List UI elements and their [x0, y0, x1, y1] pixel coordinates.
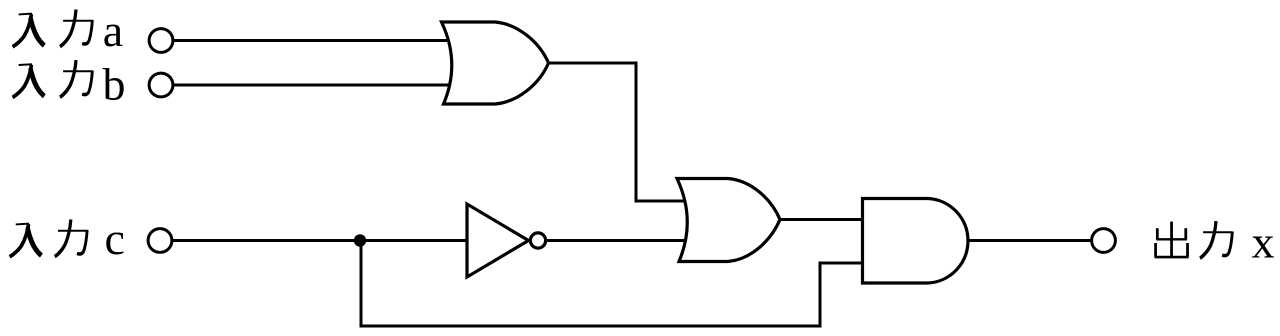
OR gate U1: [442, 22, 549, 104]
wire NOT output to OR2 input: [546, 239, 690, 242]
AND gate U4: [863, 199, 968, 284]
wire OR1 output to OR2 input: [548, 63, 690, 201]
label 入力 b: [13, 59, 126, 110]
label 入力 a: [13, 5, 124, 56]
terminal input b: [149, 73, 173, 97]
svg-text:x: x: [1252, 217, 1275, 268]
label 出力 x: [1155, 217, 1275, 268]
wire feedback c to AND input: [361, 239, 866, 326]
svg-text:b: b: [103, 59, 126, 110]
NOT gate U2 bubble: [530, 233, 545, 248]
terminal input a: [149, 29, 173, 53]
label 入力 c: [10, 213, 125, 264]
wire AND output: [969, 239, 1092, 242]
terminal input c: [148, 229, 172, 253]
terminal output x: [1092, 229, 1116, 253]
wire input c: [173, 239, 467, 242]
junction node on input c: [354, 234, 366, 246]
svg-text:a: a: [103, 5, 123, 56]
wire input a: [174, 39, 455, 42]
NOT gate U2 triangle: [467, 204, 529, 277]
OR gate U3: [677, 179, 780, 262]
wire input b: [174, 84, 455, 87]
wire OR2 output to AND input: [779, 218, 866, 221]
svg-text:c: c: [105, 213, 125, 264]
